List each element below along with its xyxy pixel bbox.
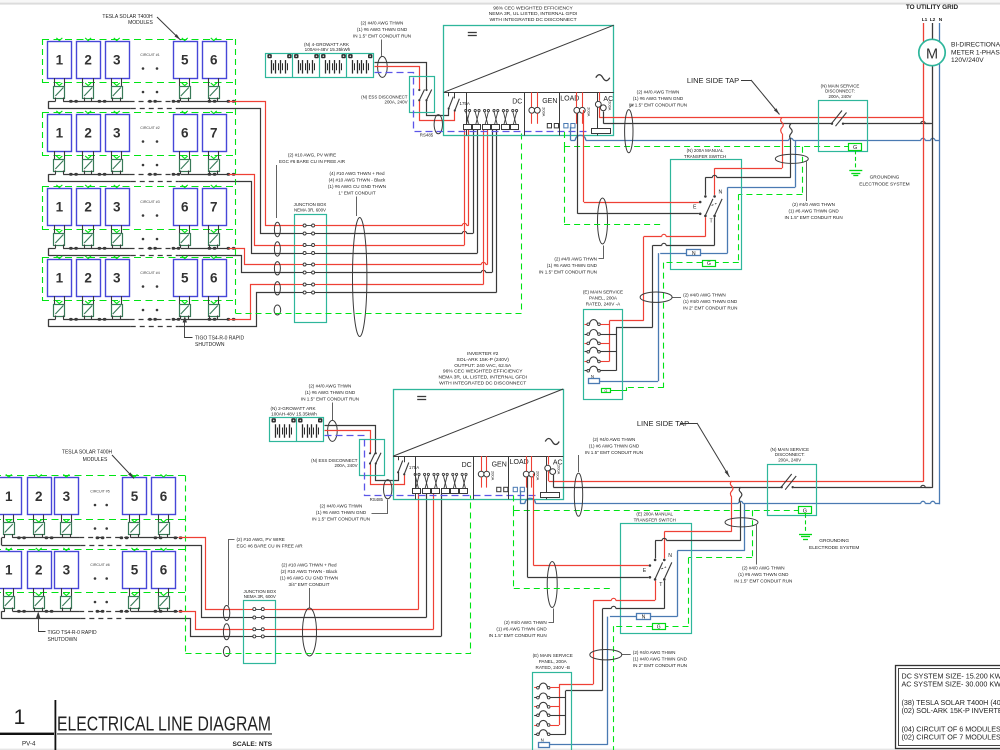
inverter1 DC symbol [468, 33, 477, 36]
inverter1 PV input switch/fuse 4 [492, 110, 500, 130]
wire system2 ground drop to transfer switch [665, 510, 752, 626]
EGC system2 inverter-to-MSP link [514, 510, 614, 588]
inverter1 section labels [512, 95, 613, 105]
array1 row4 PV module 5 [174, 256, 198, 297]
svg-text:(E) MAIN SERVICE: (E) MAIN SERVICE [533, 653, 573, 658]
svg-text:200A: 200A [557, 465, 562, 475]
array1 row4 Tigo TS4-R-O optimizer under module 6 [209, 296, 220, 319]
svg-text:200A: 200A [586, 107, 591, 117]
line side tap label system1 [687, 76, 780, 115]
utility L1 wire [923, 23, 925, 482]
wire array1 row1 + to junction box [229, 102, 295, 226]
wire array1 row3 - to junction box [236, 256, 295, 273]
array1 row1 Tigo TS4-R-O optimizer under module 1 [54, 78, 65, 101]
svg-text:5: 5 [181, 52, 189, 67]
transfer switch system2 ground bar [653, 624, 666, 631]
array1 row2 series string wire [48, 174, 228, 176]
svg-text:(2) #4/0 AWG THWN: (2) #4/0 AWG THWN [633, 650, 676, 655]
svg-text:RATED, 240V -B: RATED, 240V -B [536, 665, 570, 670]
junction box JB2 [243, 589, 276, 664]
JB2 splice row 2 [244, 616, 276, 619]
wire system1 inverter to transfer switch E (red) [584, 110, 699, 203]
label system1 E feed conduit [539, 246, 604, 275]
svg-text:(1) #6 AWG THWN GND: (1) #6 AWG THWN GND [357, 27, 408, 32]
inverter2 AC breaker 200A [545, 456, 562, 475]
svg-text:(1) #6 AWG THWN GND: (1) #6 AWG THWN GND [316, 510, 367, 515]
svg-text:G: G [657, 625, 661, 631]
svg-text:5: 5 [131, 489, 139, 504]
wire system1 transfer switch N to panel [599, 253, 687, 381]
service disconnect system2 switch [781, 474, 797, 490]
ESS1 switch poles [418, 89, 432, 101]
inverter2 PV input switch/fuse 2 [423, 473, 431, 493]
main service disconnect system2 [768, 447, 817, 516]
utility L1 L2 N labels [922, 17, 943, 23]
svg-text:EGC #6 BARE CU IN FREE AIR: EGC #6 BARE CU IN FREE AIR [279, 159, 346, 164]
JB1 splice row 1 [294, 224, 327, 227]
svg-text:CIRCUIT #3: CIRCUIT #3 [140, 200, 160, 204]
svg-text:200A, 240V: 200A, 240V [829, 94, 852, 99]
svg-text:OUTPUT: 240 VAC, 62.5A: OUTPUT: 240 VAC, 62.5A [454, 363, 512, 369]
svg-text:6: 6 [181, 125, 189, 140]
svg-text:(02) SOL-ARK 15K-P INVERTER: (02) SOL-ARK 15K-P INVERTER [902, 706, 1000, 715]
array1 row4 Tigo TS4-R-O optimizer under module 5 [180, 296, 191, 319]
svg-text:IN 1.5" EMT CONDUIT RUN: IN 1.5" EMT CONDUIT RUN [785, 215, 843, 220]
wire system2 tap L1 drop to transfer switch [692, 481, 733, 532]
transfer switch system1 blades [705, 199, 722, 216]
svg-text:1: 1 [5, 562, 13, 577]
array1 row3 continuation dots (optimizers) [142, 238, 159, 241]
transfer switch system2 blades [655, 562, 672, 579]
array2 row1 PV module 1 [0, 474, 22, 514]
transfer switch system1 E contacts [693, 201, 701, 215]
panel B breaker 3 [534, 702, 559, 708]
svg-text:100AH-48V 15.35kWh: 100AH-48V 15.35kWh [271, 412, 317, 417]
JB1 splice row 6 [294, 271, 327, 274]
svg-text:200A: 200A [536, 471, 541, 481]
svg-text:IN 1.5" EMT CONDUIT RUN: IN 1.5" EMT CONDUIT RUN [301, 397, 359, 402]
wire system2 transfer switch T to panel (black) [566, 581, 665, 691]
main service panel B enclosure [533, 653, 573, 750]
inverter2 section dividers [416, 456, 547, 499]
svg-text:2: 2 [84, 52, 92, 67]
EGC dashed green array1 to inverter1 [236, 133, 522, 314]
svg-text:200A, 240V: 200A, 240V [335, 463, 358, 468]
RS485 cable battery1 to inverter1 [375, 73, 590, 138]
svg-text:200A: 200A [607, 101, 612, 111]
service disconnect system2 ground bar G [799, 507, 812, 515]
inverter1 section dividers [467, 92, 598, 135]
array2 row1 array boundary (dashed) [0, 476, 186, 520]
svg-text:TESLA SOLAR T400H: TESLA SOLAR T400H [62, 450, 113, 456]
main service panel A enclosure [583, 289, 623, 399]
svg-text:6: 6 [160, 489, 168, 504]
conduit marker system2 TS to panel [590, 650, 622, 660]
svg-text:SCALE: NTS: SCALE: NTS [232, 741, 272, 748]
svg-text:N: N [642, 615, 646, 621]
label ESS2 to inverter conduit [312, 500, 388, 522]
wire system1 tap L1 drop to transfer switch [742, 118, 783, 169]
inverter1 175A battery breaker [448, 93, 470, 112]
transfer switch system1 N contacts [704, 168, 742, 198]
EGC system1 inverter-to-MSP link [564, 147, 664, 225]
inverter2 LOAD neutral terminals [513, 487, 524, 491]
svg-text:6: 6 [181, 199, 189, 214]
svg-text:(2) #4/0 AWG THWN: (2) #4/0 AWG THWN [637, 90, 680, 95]
conduit marker battery1 [378, 56, 388, 77]
wire array1 row2 + to junction box [229, 175, 295, 246]
svg-text:IN 1.5" EMT CONDUIT RUN: IN 1.5" EMT CONDUIT RUN [539, 270, 597, 275]
svg-text:1: 1 [14, 706, 26, 729]
svg-text:(02) CIRCUIT OF 7 MODULES: (02) CIRCUIT OF 7 MODULES [902, 732, 1000, 741]
array1 row3 array boundary (dashed) [42, 186, 236, 230]
array1 row1 PV module 5 [174, 38, 198, 79]
svg-text:(2) #4/0 AWG THWN: (2) #4/0 AWG THWN [792, 202, 835, 207]
inverter2 PV input switch/fuse 1 [413, 473, 421, 493]
array1 right dashed EGC boundary [235, 39, 237, 313]
inverter1 PV input switch/fuse 2 [473, 110, 481, 130]
array1 row3 continuation dots (modules) [142, 214, 159, 217]
label 3/4in EMT conduit array2 [280, 563, 338, 608]
utility N wire [939, 23, 941, 504]
wire system2 transfer switch G to panel [561, 626, 653, 750]
array1 row1 Tigo TS4-R-O optimizer under module 5 [180, 78, 191, 101]
svg-text:IN 1.5" EMT CONDUIT RUN: IN 1.5" EMT CONDUIT RUN [353, 34, 411, 39]
svg-text:(1) #6 AWG THWN GND: (1) #6 AWG THWN GND [633, 96, 684, 101]
array1 row3 PV module 3 [106, 185, 130, 226]
svg-text:1: 1 [56, 199, 64, 214]
svg-text:SHUTDOWN: SHUTDOWN [195, 342, 225, 348]
transfer switch system2 T contacts [654, 578, 666, 588]
array1 row4 continuation dots (modules) [142, 285, 159, 288]
panel A breaker 3 [585, 339, 610, 345]
label system2 AC output conduit [579, 437, 644, 472]
inverter2 GEN terminals [497, 487, 508, 491]
array1 row4 PV module 1 [48, 256, 72, 297]
svg-text:NEMA 3R, 600V: NEMA 3R, 600V [294, 207, 326, 212]
svg-text:SHUTDOWN: SHUTDOWN [48, 637, 78, 643]
label battery2 conduit run [301, 384, 359, 421]
svg-text:CIRCUIT #5: CIRCUIT #5 [90, 490, 110, 494]
array2 row1 continuation dots (optimizers) [94, 527, 108, 530]
svg-text:EGC #6 BARE CU IN FREE AIR: EGC #6 BARE CU IN FREE AIR [237, 543, 304, 548]
svg-text:96% CEC WEIGHTED EFFICIENCY: 96% CEC WEIGHTED EFFICIENCY [493, 5, 573, 11]
array1 row1 negative return wire [48, 101, 235, 109]
svg-text:(1) #6 AWG CU GND THWN: (1) #6 AWG CU GND THWN [328, 184, 386, 189]
array1 row4 Tigo TS4-R-O optimizer under module 3 [112, 296, 123, 319]
svg-text:6: 6 [210, 52, 218, 67]
JB1 splice row 3 [294, 244, 327, 247]
svg-text:E: E [693, 204, 697, 210]
svg-text:(1) #6 AWG THWN GND: (1) #6 AWG THWN GND [738, 572, 789, 577]
inverter1 label [489, 5, 578, 23]
panel A breaker 4 [585, 347, 617, 353]
panel B bus (black) [565, 691, 567, 735]
conduit marker system2 tap to transfer switch [725, 518, 758, 527]
svg-text:AC SYSTEM SIZE- 30.000 KW: AC SYSTEM SIZE- 30.000 KW [902, 679, 1000, 688]
svg-text:200A, 240V: 200A, 240V [385, 100, 408, 105]
svg-text:(N) 4-GROWATT ARK: (N) 4-GROWATT ARK [304, 42, 350, 47]
conduit marker system2 inverter AC output [574, 473, 582, 516]
inverter1 GEN breaker 200A [529, 92, 546, 124]
array1 row2 PV module 6 [174, 111, 198, 152]
inverter1 LOAD neutral terminals [564, 124, 575, 128]
wire array1 row1 - to junction box [236, 109, 295, 234]
wire system2 neutral drop to transfer switch [650, 504, 745, 617]
array2 row1 PV module 6 [152, 474, 176, 514]
svg-text:(N) 200A MANUAL: (N) 200A MANUAL [687, 148, 724, 153]
free-air conduit markers array2 [223, 606, 229, 657]
array1 row3 PV module 7 [203, 185, 227, 226]
JB1 splice row 7 [294, 283, 327, 286]
inverter2 175A battery breaker [397, 456, 419, 475]
svg-text:IN 2" EMT CONDUIT RUN: IN 2" EMT CONDUIT RUN [683, 306, 737, 311]
transfer switch system2 [621, 512, 692, 634]
array1 row1 PV module 2 [77, 38, 101, 79]
array1 row2 Tigo TS4-R-O optimizer under module 1 [54, 151, 65, 174]
panel A ground bar [602, 389, 611, 393]
array2 row2 Tigo TS4-R-O optimizer under module 3 [61, 588, 72, 611]
inverter2 LOAD breaker 200A [523, 456, 540, 488]
array1 row1 Tigo TS4-R-O optimizer under module 6 [209, 78, 220, 101]
wire system1 AC L1 (red) inverter to utility [599, 108, 923, 118]
svg-text:ELECTRODE SYSTEM: ELECTRODE SYSTEM [809, 545, 859, 551]
JB1 splice row 5 [294, 263, 327, 266]
array1 row2 Tigo TS4-R-O optimizer under module 3 [112, 151, 123, 174]
array1 Tigo rapid shutdown label [183, 316, 245, 348]
svg-text:DC: DC [462, 462, 472, 469]
svg-text:ELECTRODE SYSTEM: ELECTRODE SYSTEM [859, 182, 909, 188]
transfer switch system1 T contacts [704, 215, 716, 225]
panel B breaker 6 [534, 730, 566, 736]
svg-text:(2) #10 AWG THWN - Black: (2) #10 AWG THWN - Black [281, 569, 338, 574]
wire system2 inverter to transfer switch E (red) [534, 474, 649, 566]
array1 row3 Tigo TS4-R-O optimizer under module 7 [209, 225, 220, 248]
inverter2 section labels [462, 459, 563, 469]
array2 row1 PV module 2 [28, 474, 52, 514]
svg-text:1" EMT CONDUIT: 1" EMT CONDUIT [338, 191, 375, 196]
array1 row3 PV module 2 [77, 185, 101, 226]
panel B bus (red) [559, 684, 561, 725]
svg-text:(E) 200A MANUAL: (E) 200A MANUAL [636, 512, 673, 517]
svg-text:GROUNDING: GROUNDING [870, 175, 900, 181]
JB2 splice row 3 [244, 628, 276, 631]
svg-text:(2) #4/0 AWG THWN: (2) #4/0 AWG THWN [309, 384, 352, 389]
inverter1 PV input switch/fuse 5 [502, 110, 510, 130]
svg-text:DC: DC [512, 98, 522, 105]
array1 row1 PV module 1 [48, 38, 72, 79]
array1 row3 Tigo TS4-R-O optimizer under module 1 [54, 225, 65, 248]
array2 row1 Tigo TS4-R-O optimizer under module 6 [159, 515, 170, 538]
inverter1 PV input switch/fuse 6 [511, 110, 519, 130]
wire battery2 positive to ESS2 [325, 431, 405, 485]
array2 row2 continuation dots (optimizers) [94, 601, 108, 604]
inverter2 DC symbol [417, 397, 426, 400]
svg-text:(2) #4/0 AWG THWN: (2) #4/0 AWG THWN [742, 566, 785, 571]
JB2 splice row 1 [244, 608, 276, 611]
svg-text:LOAD: LOAD [510, 459, 529, 466]
svg-text:TIGO TS4-R-0 RAPID: TIGO TS4-R-0 RAPID [48, 630, 97, 636]
array2 row2 Tigo TS4-R-O optimizer under module 6 [159, 588, 170, 611]
svg-text:2: 2 [35, 562, 43, 577]
svg-text:(1) #6 AWG THWN GND: (1) #6 AWG THWN GND [305, 390, 356, 395]
array2 Tigo rapid shutdown label [36, 612, 97, 644]
conduit marker system1 TS to panel [640, 292, 672, 302]
array2 row2 PV module 1 [0, 548, 22, 589]
svg-text:IN 1.5" EMT CONDUIT RUN: IN 1.5" EMT CONDUIT RUN [629, 103, 687, 108]
array2 module label [62, 450, 134, 479]
array1 row2 Tigo TS4-R-O optimizer under module 2 [83, 151, 94, 174]
array1 row1 continuation dots (modules) [142, 67, 159, 70]
conduit marker system1 tap to transfer switch [775, 154, 808, 163]
wire system2 AC L2 (black) inverter to utility [553, 475, 933, 488]
svg-text:G: G [707, 261, 711, 267]
inverter2 PV input switch/fuse 5 [451, 473, 459, 493]
bi-directional meter [919, 39, 1000, 65]
svg-text:100AH-48V 15.35kWh: 100AH-48V 15.35kWh [305, 47, 351, 52]
wire system2 AC L1 (red) inverter to utility [549, 471, 924, 482]
svg-text:NEMA 3R, UL LISTED, INTERNAL G: NEMA 3R, UL LISTED, INTERNAL GFDI [489, 11, 578, 17]
array1 row4 continuation dots (optimizers) [142, 309, 159, 312]
array1 row4 array boundary (dashed) [42, 257, 236, 301]
array1 row1 PV module 3 [106, 38, 130, 79]
wire battery1 negative to ESS1 [375, 63, 449, 116]
svg-text:PANEL, 200A: PANEL, 200A [539, 659, 568, 664]
svg-text:175A: 175A [460, 101, 470, 106]
svg-text:1: 1 [56, 125, 64, 140]
wire system2 inverter to transfer switch E (black) [528, 477, 649, 578]
label 1in EMT conduit array1 [328, 171, 386, 216]
svg-text:120V/240V: 120V/240V [951, 57, 984, 64]
svg-text:(4) #10 AWG THWN + Red: (4) #10 AWG THWN + Red [329, 171, 384, 176]
svg-text:(1) #6 AWG THWN GND: (1) #6 AWG THWN GND [788, 209, 839, 214]
svg-text:(1) #6 AWG THWN GND: (1) #6 AWG THWN GND [547, 263, 598, 268]
label battery1 conduit run [353, 21, 411, 56]
array1 row4 negative return wire [48, 319, 235, 327]
browser chrome top bar [0, 0, 1000, 3]
svg-text:3: 3 [63, 562, 71, 577]
svg-text:(2) #4/0 AWG THWN: (2) #4/0 AWG THWN [554, 257, 597, 262]
wire array2 row5 - to junction box 2 [186, 546, 244, 618]
svg-text:TRANSFER SWITCH: TRANSFER SWITCH [684, 154, 726, 159]
battery2 (N) 2-GROWATT ARK [270, 406, 324, 441]
ESS disconnect 2 [311, 440, 384, 476]
JB1 splice row 8 [294, 291, 327, 294]
svg-text:2: 2 [84, 199, 92, 214]
panel B breaker 5 [534, 720, 559, 726]
array1 row3 negative return wire [48, 248, 235, 256]
array1 row2 PV module 3 [106, 111, 130, 152]
wire array1 row4 - to junction box [236, 293, 295, 327]
svg-text:(N) 2-GROWATT ARK: (N) 2-GROWATT ARK [270, 406, 316, 411]
svg-text:N: N [719, 190, 723, 196]
svg-text:MODULES: MODULES [128, 20, 153, 26]
line side tap label system2 [637, 419, 730, 477]
svg-text:6: 6 [210, 270, 218, 285]
svg-text:CIRCUIT #6: CIRCUIT #6 [90, 563, 110, 567]
svg-text:IN 1.5" EMT CONDUIT RUN: IN 1.5" EMT CONDUIT RUN [489, 633, 547, 638]
wire array1 row4 + to junction box [229, 285, 295, 320]
array1 row3 PV module 1 [48, 185, 72, 226]
svg-text:(E) MAIN SERVICE: (E) MAIN SERVICE [583, 289, 623, 294]
svg-text:E: E [643, 568, 647, 574]
label system1 tap conduit run [785, 162, 843, 221]
svg-text:3: 3 [113, 270, 121, 285]
free-air conduit markers array1 [274, 222, 281, 315]
array1 row2 PV module 7 [203, 111, 227, 152]
RS485 cable battery2 to inverter2 [325, 436, 539, 502]
array2 row2 PV module 3 [55, 548, 79, 589]
svg-text:N: N [541, 737, 544, 742]
inverter1 GEN terminals [547, 124, 558, 128]
svg-text:7: 7 [210, 125, 218, 140]
svg-text:L2: L2 [930, 17, 936, 23]
svg-text:3: 3 [63, 489, 71, 504]
svg-text:WITH INTEGRATED DC DISCONNECT: WITH INTEGRATED DC DISCONNECT [489, 17, 576, 23]
svg-text:INVERTER #2: INVERTER #2 [467, 351, 499, 357]
array2 row1 Tigo TS4-R-O optimizer under module 5 [129, 515, 140, 538]
inverter1 PV input switch/fuse 1 [464, 110, 472, 130]
wire system2 EGC (green dashed) inverter to service disconnect [514, 496, 799, 511]
inverter2 label [438, 351, 527, 387]
svg-text:NEMA 3R, UL LISTED, INTERNAL G: NEMA 3R, UL LISTED, INTERNAL GFDI [438, 375, 527, 381]
array1 row1 Tigo TS4-R-O optimizer under module 3 [112, 78, 123, 101]
label system2 TS-panel conduit [622, 650, 688, 668]
array2 row2 series string wire [2, 611, 179, 613]
svg-text:96% CEC WEIGHTED EFFICIENCY: 96% CEC WEIGHTED EFFICIENCY [443, 369, 523, 375]
label system1 AC output conduit [629, 90, 687, 108]
array1 row3 Tigo TS4-R-O optimizer under module 2 [83, 225, 94, 248]
svg-text:(2) #4/0 AWG THWN: (2) #4/0 AWG THWN [504, 620, 547, 625]
svg-text:N: N [668, 553, 672, 559]
svg-text:IN 1.5" EMT CONDUIT RUN: IN 1.5" EMT CONDUIT RUN [312, 517, 370, 522]
inverter2 PV input switch/fuse 4 [442, 473, 450, 493]
array2 row1 Tigo TS4-R-O optimizer under module 1 [4, 515, 15, 538]
service disconnect system1 switch [831, 111, 847, 127]
svg-text:(1) #4/0 AWG THWN GND: (1) #4/0 AWG THWN GND [683, 299, 738, 304]
inverter2 comm terminal block [541, 493, 560, 498]
svg-text:G: G [803, 509, 807, 515]
svg-text:PANEL, 200A: PANEL, 200A [589, 295, 618, 300]
svg-text:N: N [692, 251, 696, 257]
wire system2 transfer switch T to panel (red) [559, 581, 655, 685]
label system2 E feed conduit [489, 609, 554, 639]
svg-text:(2) #4/0 AWG THWN: (2) #4/0 AWG THWN [320, 504, 363, 509]
wire battery2 negative to ESS2 [325, 426, 399, 481]
svg-text:3: 3 [113, 52, 121, 67]
svg-text:1: 1 [56, 270, 64, 285]
svg-text:IN 1.5" EMT CONDUIT RUN: IN 1.5" EMT CONDUIT RUN [585, 450, 643, 455]
svg-text:2: 2 [84, 270, 92, 285]
panel B breaker 1 [534, 683, 559, 689]
wire battery1 positive to ESS1 [375, 67, 455, 121]
svg-text:(1) #6 AWG CU GND THWN: (1) #6 AWG CU GND THWN [280, 576, 338, 581]
wire array2 row5 + to junction box 2 [179, 538, 244, 610]
wire system1 AC L2 (black) inverter to utility [604, 112, 933, 124]
svg-text:(4) #10 AWG THWN - Black: (4) #10 AWG THWN - Black [329, 178, 386, 183]
svg-text:NEMA 3R, 600V: NEMA 3R, 600V [244, 594, 276, 599]
array1 row1 series string wire [48, 101, 228, 103]
wire system1 tap L2 drop to transfer switch [742, 124, 792, 178]
conduit marker ESS1 to inverter1 [434, 115, 442, 134]
inverter1 LOAD breaker 200A [574, 92, 591, 124]
svg-text:G: G [853, 145, 857, 151]
wire system1 EGC (green dashed) inverter to service disconnect [564, 132, 849, 147]
array1 row4 PV module 2 [77, 256, 101, 297]
wire system1 transfer switch T to panel (red) [609, 217, 705, 321]
array1 row3 Tigo TS4-R-O optimizer under module 6 [180, 225, 191, 248]
svg-text:(2) #10 AWG, PV WIRE: (2) #10 AWG, PV WIRE [237, 537, 285, 542]
